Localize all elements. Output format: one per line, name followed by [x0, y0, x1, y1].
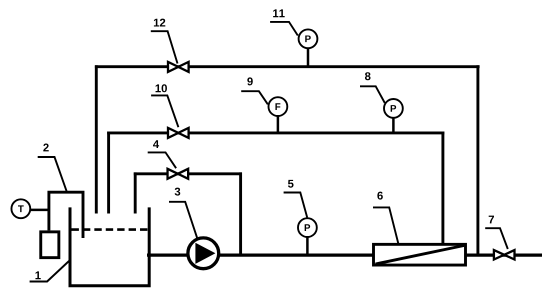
label 4: [148, 140, 176, 168]
pressure gauge P5 stem: [306, 236, 309, 255]
label 10: [151, 84, 178, 127]
valve 10: [168, 128, 189, 138]
wire top recycle line horizontal: [95, 65, 480, 68]
pressure gauge P8: [384, 99, 403, 118]
label 2: [38, 144, 67, 192]
wire middle recycle line horizontal: [107, 131, 444, 134]
pressure gauge P8 stem: [392, 117, 395, 133]
feed chamber 2: [49, 192, 83, 238]
wire top-line left dip tube into tank: [95, 65, 98, 213]
flow gauge F9: [269, 97, 288, 116]
wire bypass line horizontal: [134, 172, 242, 175]
wire bypass-line right drop to main line: [239, 172, 242, 255]
liquid level dashed line: [72, 228, 148, 231]
tank 1: [70, 207, 149, 285]
wire top-line right drop to main line: [476, 65, 479, 255]
label 12: [151, 19, 178, 64]
pump 3: [188, 238, 219, 269]
wire middle-line right drop to module top: [441, 132, 444, 246]
wire middle-line left dip tube into tank: [107, 132, 110, 214]
label 6: [373, 192, 398, 244]
membrane module 6: [374, 244, 466, 265]
valve 4: [168, 169, 189, 179]
wire bypass-line left dip tube into tank: [134, 172, 137, 213]
valve 12: [168, 62, 189, 72]
heater block: [41, 232, 59, 258]
label 11: [270, 9, 298, 35]
pressure gauge P5: [298, 218, 317, 237]
label 7: [485, 216, 508, 249]
label 9: [241, 77, 268, 104]
label 1: [30, 261, 69, 282]
label 5: [284, 180, 308, 218]
pressure gauge P11 stem: [307, 48, 310, 67]
valve 7: [494, 250, 515, 259]
temperature gauge T: [11, 199, 30, 218]
label 8: [360, 72, 385, 103]
flow gauge F9 stem: [277, 115, 280, 133]
wire main flow line: [147, 253, 542, 256]
label 3: [169, 188, 197, 239]
wire temperature sensor line: [31, 209, 49, 212]
pressure gauge P11: [299, 29, 318, 48]
